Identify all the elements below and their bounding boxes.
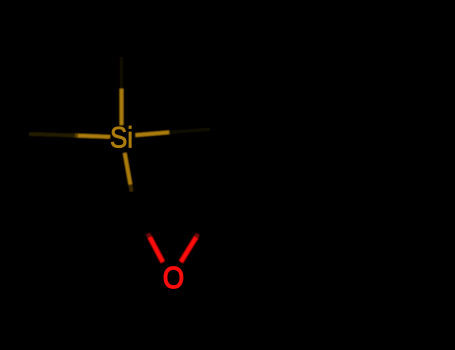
bond Si-C2, carbon half (very dark) (130, 185, 134, 206)
wire ring edge V2-V3 (294, 64, 376, 112)
bond Si-CH3 left, carbon half (very dark) (29, 134, 75, 136)
wire ring edge V4-V5 (294, 206, 376, 254)
wire ring edge V5-C3 (212, 206, 294, 254)
bond C3-O, oxygen-colored half (181, 237, 196, 261)
wire ring edge V1-V2 (212, 64, 294, 112)
bond Si-CH3 left, Si-colored half (75, 136, 110, 137)
bond Si-CH3 left junction fade (71, 134, 78, 138)
bond C3-O fade stub (195, 234, 197, 239)
wire ring edge C3-V1 (210, 111, 213, 206)
bond C2-C3 oxirane base (near-invisible carbon bond) (134, 205, 212, 208)
bond Si-CH3 right, carbon half (very dark) (169, 129, 210, 132)
bond C3-O, carbon half (very dark) (196, 206, 212, 237)
svg-text:O: O (163, 261, 184, 295)
bond Si-C2 fade stub (130, 185, 131, 192)
bond Si-CH3 right, Si-colored half (136, 132, 170, 135)
cyclohexane ring carbon-carbon bonds (near-invisible on black) (212, 64, 377, 254)
bond C2-O fade stub (148, 234, 151, 239)
wire ring edge V3-V4 (375, 111, 378, 206)
bond Si-CH3 up, Si-colored half (120, 89, 124, 125)
bond Si-C2, Si-colored half (125, 153, 131, 185)
bond C2-O, carbon half (very dark) (134, 206, 150, 237)
bond Si-CH3 up, carbon half (very dark) (120, 57, 124, 89)
bond C2-O, oxygen-colored half (150, 237, 163, 262)
svg-text:Si: Si (110, 121, 133, 154)
